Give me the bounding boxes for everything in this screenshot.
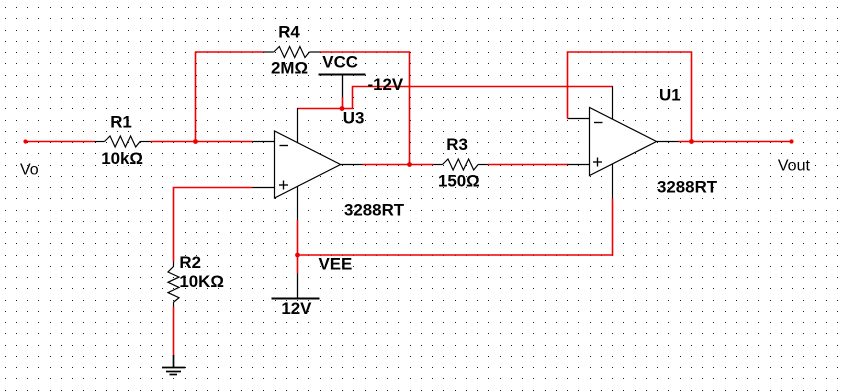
resistor R2	[168, 262, 179, 307]
junction node at VEE	[295, 253, 300, 258]
svg-text:3288RT: 3288RT	[657, 177, 718, 196]
svg-text:3288RT: 3288RT	[344, 200, 405, 219]
wire U1 feedback loop	[568, 52, 692, 142]
power symbol VCC	[319, 75, 366, 109]
svg-text:R2: R2	[179, 253, 201, 272]
svg-text:10kΩ: 10kΩ	[101, 149, 143, 168]
ground	[162, 355, 185, 375]
junction node at U3 output / R4	[407, 162, 412, 167]
svg-text:R4: R4	[278, 23, 300, 42]
wire U3 + input rail	[174, 188, 253, 262]
wire R4 rail left segment	[195, 51, 264, 53]
wire R4 to output-node vertical	[321, 52, 410, 165]
node Vo terminal	[23, 139, 27, 143]
svg-text:-12V: -12V	[368, 75, 404, 94]
svg-text:10KΩ: 10KΩ	[179, 272, 224, 291]
wire VEE rail	[298, 199, 613, 256]
wire R3 to U1 + input	[488, 164, 569, 166]
wire VCC node to -12V rail	[342, 87, 613, 109]
junction node at R1/R4	[193, 139, 198, 144]
resistor R1	[95, 136, 151, 147]
svg-text:2MΩ: 2MΩ	[271, 58, 308, 77]
wire R1 to U3 inverting input	[151, 141, 253, 143]
svg-text:Vo: Vo	[20, 161, 39, 178]
junction node at VCC	[340, 106, 345, 111]
wire Vo to R1	[26, 141, 95, 143]
svg-text:Vout: Vout	[778, 157, 811, 174]
node Vout terminal	[789, 139, 793, 143]
wire R2 to ground	[173, 307, 175, 356]
op-amp U3	[253, 108, 363, 221]
power symbol VEE 12V	[272, 274, 320, 299]
wire U1 output to Vout	[679, 141, 792, 143]
svg-text:VCC: VCC	[322, 52, 358, 71]
wire VCC node to U3 VCC pin	[298, 108, 343, 110]
svg-text:R3: R3	[446, 135, 468, 154]
resistor R3	[434, 159, 488, 170]
svg-text:VEE: VEE	[319, 254, 353, 273]
svg-text:R1: R1	[110, 112, 132, 131]
junction node at U1 output	[689, 139, 694, 144]
wire junction up to R4 rail	[195, 52, 197, 142]
svg-text:U1: U1	[659, 85, 681, 104]
svg-text:12V: 12V	[281, 299, 312, 318]
resistor R4	[264, 47, 321, 58]
wire U3 output to R3	[363, 164, 434, 166]
op-amp U1	[568, 87, 679, 199]
wire U3 VEE pin to VEE node	[297, 220, 299, 274]
svg-text:150Ω: 150Ω	[438, 171, 480, 190]
svg-text:U3: U3	[343, 108, 365, 127]
